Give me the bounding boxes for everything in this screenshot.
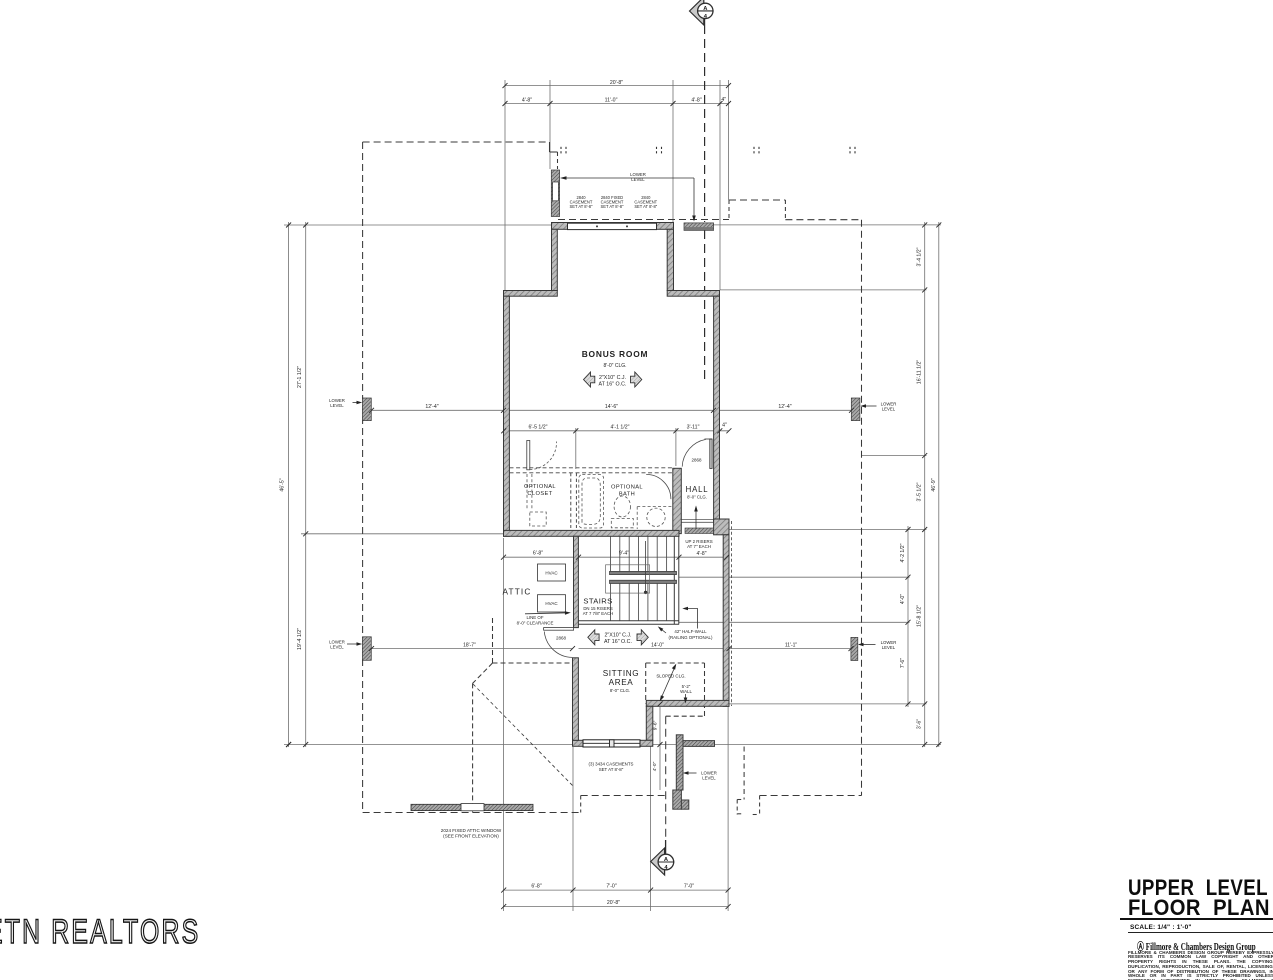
- svg-text:11'-1": 11'-1": [785, 643, 798, 649]
- svg-text:15'-8 1/2": 15'-8 1/2": [917, 605, 923, 627]
- roof right h y219.7: [785, 219, 861, 221]
- svg-text:3'-4 1/2": 3'-4 1/2": [917, 247, 923, 266]
- svg-text:AT 16" O.C.: AT 16" O.C.: [604, 639, 632, 645]
- attic boundary y795.5: [581, 795, 666, 797]
- chimney lower v2: [673, 790, 682, 809]
- top dim row 2: [505, 103, 729, 105]
- dim ext vertical x660 for 9'-6" and 4'-0": [659, 707, 661, 790]
- bath south wall: [504, 530, 680, 536]
- stairs bottom wall line outer: [579, 623, 680, 625]
- svg-text:46'-9": 46'-9": [931, 478, 937, 491]
- svg-text:LEVEL: LEVEL: [631, 177, 645, 182]
- bottom dim row y906.6: [504, 906, 728, 908]
- roof right h y200: [729, 199, 785, 201]
- section line A top: [704, 25, 706, 222]
- bay right wall: [667, 229, 673, 290]
- stair walk line: [645, 541, 647, 593]
- svg-text:12'-4": 12'-4": [425, 404, 438, 410]
- vanity counter dashed: [637, 506, 673, 508]
- leader bottom-center lower level: [685, 772, 697, 774]
- roof outline left vertical: [362, 142, 364, 813]
- leader left-mid marker: [353, 402, 361, 404]
- svg-text:AT 16" O.C.: AT 16" O.C.: [599, 382, 627, 388]
- hall door header stub: [705, 438, 713, 440]
- top bay window: [568, 223, 657, 229]
- stairs bottom wall line inner: [579, 620, 680, 622]
- tub inner dashed: [582, 478, 600, 524]
- svg-text:27'-1 1/2": 27'-1 1/2": [297, 366, 303, 388]
- svg-text:20'-8": 20'-8": [610, 80, 623, 86]
- joist arrow stairs left: [588, 630, 599, 645]
- bottom right wall: [646, 700, 729, 706]
- svg-text:42" HALF-WALL: 42" HALF-WALL: [674, 629, 707, 634]
- svg-text:4'-0": 4'-0": [652, 761, 658, 771]
- sink circle dashed: [647, 508, 665, 526]
- watermark ETN REALTORS: [0, 913, 200, 952]
- svg-text:2868: 2868: [556, 635, 567, 640]
- svg-text:3'-11": 3'-11": [687, 424, 700, 430]
- svg-text:2024 FIXED ATTIC WINDOW: 2024 FIXED ATTIC WINDOW: [441, 828, 502, 833]
- svg-text:12'-4": 12'-4": [778, 404, 791, 410]
- sloped clg rect bottom: [666, 715, 705, 717]
- closet door leaf: [527, 441, 530, 470]
- sloped ceiling double arrow: [661, 666, 676, 700]
- top ext vertical x505: [504, 80, 506, 290]
- stair rail band lower: [610, 580, 677, 583]
- right ext y704: [729, 703, 927, 705]
- upper-left window marker glass: [553, 182, 559, 201]
- hall step hatch band: [685, 528, 714, 534]
- right ext y455.6: [862, 455, 927, 457]
- dim row y648.6 center: [579, 648, 724, 650]
- svg-text:LEVEL: LEVEL: [882, 645, 896, 650]
- arrowhead right low: [357, 642, 363, 645]
- right ext y577.2: [679, 576, 910, 578]
- right ext y529.5: [729, 529, 927, 531]
- arrowhead down at wall marker: [692, 216, 696, 222]
- svg-text:BONUS ROOM: BONUS ROOM: [582, 349, 649, 359]
- svg-text:SET AT 8'-8": SET AT 8'-8": [570, 204, 593, 209]
- hall step riser line 2: [682, 521, 714, 523]
- svg-text:4'-8": 4'-8": [697, 551, 707, 557]
- attic boundary dashed y812.5: [363, 812, 581, 814]
- main right wall upper: [714, 296, 720, 521]
- svg-text:7'-0": 7'-0": [684, 884, 694, 890]
- roof eave above window: [558, 219, 729, 221]
- leader up-2-risers arrow: [695, 508, 697, 529]
- arrowhead left low: [858, 643, 864, 646]
- svg-text:3'-5 1/2": 3'-5 1/2": [917, 482, 923, 501]
- svg-text:ATTIC: ATTIC: [502, 588, 531, 597]
- closet door arc: [530, 442, 557, 470]
- THIN-LINES: [284, 80, 941, 911]
- sitting step-down wall: [646, 706, 653, 740]
- lower level marker left-low: [362, 637, 371, 661]
- bottom ext vertical x503.4: [502, 538, 504, 911]
- svg-text:14'-6": 14'-6": [605, 404, 618, 410]
- top window mullion dot 2: [626, 225, 628, 227]
- svg-text:WALL: WALL: [680, 689, 692, 694]
- long bottom ext y744.5: [284, 744, 941, 746]
- corner post mark 3: [754, 147, 759, 154]
- svg-text:6'-5 1/2": 6'-5 1/2": [529, 424, 548, 430]
- clearance diagonal cut: [473, 663, 493, 683]
- lower level hook v x737: [736, 800, 738, 815]
- lower level marker right-low: [851, 637, 858, 660]
- top ext vertical x720: [719, 80, 721, 290]
- lower level hook foot x737: [737, 813, 743, 815]
- dim row 12'-4" right: [720, 409, 852, 411]
- svg-text:4'-1 1/2": 4'-1 1/2": [611, 424, 630, 430]
- roof outline right vertical: [861, 220, 863, 796]
- ticks stairs row: [501, 555, 729, 560]
- right wall jog block: [714, 519, 729, 535]
- bay left wall: [552, 229, 558, 290]
- section marker A4 bottom triangle: [651, 848, 665, 875]
- dim row 14'-6" center: [510, 409, 714, 411]
- attic fixed window band: [411, 804, 533, 810]
- right tier B x924.7: [924, 222, 926, 747]
- dim row y648.6 left: [372, 648, 573, 650]
- sloped clg rect right: [704, 663, 706, 716]
- closet rod dashed 2: [531, 474, 533, 509]
- FIXTURES: [510, 439, 713, 657]
- toilet bowl dashed: [614, 496, 630, 517]
- SECTION MARKERS: [651, 0, 714, 875]
- roof step v2: [557, 152, 559, 169]
- ticks row y648.6: [369, 646, 854, 651]
- section marker A4 top circle: [698, 3, 713, 18]
- svg-text:16'-11 1/2": 16'-11 1/2": [917, 360, 923, 385]
- sitting south wall: [573, 740, 653, 746]
- svg-text:9'-4": 9'-4": [619, 551, 629, 557]
- svg-text:6'-8": 6'-8": [533, 551, 543, 557]
- section tail dashed x665.7: [665, 716, 667, 840]
- bath door arc: [646, 474, 671, 499]
- arrowhead left: [860, 404, 866, 407]
- section line A in plan: [704, 230, 706, 384]
- section marker A4 bottom divider: [658, 861, 675, 863]
- right ext y224.9: [684, 224, 941, 226]
- bottom ext vertical x728.1: [727, 707, 729, 911]
- optional wall dashed top line: [510, 467, 673, 469]
- svg-text:LEVEL: LEVEL: [882, 407, 896, 412]
- ticks row 12'-4": [369, 408, 854, 413]
- svg-text:9'-6": 9'-6": [653, 720, 659, 730]
- svg-text:LEVEL: LEVEL: [702, 776, 716, 781]
- svg-text:HVAC: HVAC: [545, 571, 558, 576]
- arrowhead bottom-center: [683, 771, 689, 774]
- clearance dashed v x492.5: [492, 618, 494, 663]
- svg-text:7'-0": 7'-0": [606, 884, 616, 890]
- tub outer dashed: [579, 475, 604, 528]
- svg-text:8'-0" CLG.: 8'-0" CLG.: [610, 688, 630, 693]
- svg-text:OPTIONAL: OPTIONAL: [524, 484, 556, 490]
- lower level hook foot: [753, 814, 760, 816]
- svg-text:46'-5": 46'-5": [280, 478, 286, 491]
- dim row 12'-4" left: [372, 409, 504, 411]
- bottom ext vertical x650.6: [650, 708, 652, 911]
- stairs west wall: [574, 536, 579, 627]
- svg-text:19'-4 1/2": 19'-4 1/2": [297, 628, 303, 650]
- optional wall dashed bottom line: [510, 472, 673, 474]
- section line bottom dashed: [665, 840, 667, 854]
- joist arrow bonus left: [584, 372, 595, 387]
- dim row y648.6 right 11'-1": [729, 648, 851, 650]
- corner post mark 4: [850, 147, 855, 154]
- bay top wall: [552, 223, 674, 230]
- stairs halfwall line inner: [673, 536, 675, 624]
- lower level hook v x759.6: [759, 796, 761, 815]
- TICKS: [286, 83, 941, 909]
- main left wall: [504, 296, 510, 536]
- closet shelf dashed box: [530, 512, 546, 526]
- sitting window (3) 3434: [583, 740, 640, 747]
- svg-text:(SEE FRONT ELEVATION): (SEE FRONT ELEVATION): [443, 834, 499, 839]
- leader left-low marker: [347, 643, 361, 645]
- svg-text:AREA: AREA: [609, 678, 634, 687]
- hall door arc: [682, 439, 706, 466]
- ext vertical x675.9: [675, 428, 677, 466]
- DASHED-LINES: [363, 25, 862, 854]
- leader right-mid marker: [862, 405, 877, 407]
- top window mullion dot 1: [596, 225, 598, 227]
- ticks top row2: [503, 101, 732, 106]
- attic door leaf 2868: [544, 628, 574, 631]
- svg-text:(RAILING OPTIONAL): (RAILING OPTIONAL): [669, 635, 713, 640]
- svg-text:LEVEL: LEVEL: [330, 645, 344, 650]
- svg-text:LEVEL: LEVEL: [330, 403, 344, 408]
- roof right step v2: [784, 200, 786, 220]
- left ext y225: [284, 224, 552, 226]
- stair treads: [611, 537, 667, 621]
- chimney lower-level wall v1: [676, 735, 683, 790]
- svg-text:SET AT 8'-8": SET AT 8'-8": [599, 767, 624, 772]
- ticks right chain A: [906, 527, 911, 706]
- attic window center glass: [461, 804, 484, 811]
- hall door leaf 2868: [710, 439, 712, 469]
- attic door arc: [544, 632, 572, 658]
- toilet tank dashed: [611, 519, 633, 528]
- bottom dim row y890: [504, 889, 728, 891]
- lower level hook v x744: [743, 747, 745, 800]
- arrowhead at window marker: [560, 176, 567, 180]
- svg-text:4'-8": 4'-8": [522, 97, 532, 103]
- leader top lower-level h: [563, 177, 695, 179]
- clearance long diagonal: [473, 684, 573, 786]
- lower level outline bottom right h: [760, 795, 862, 797]
- left chain inner: [305, 222, 307, 747]
- right ext y622.3: [679, 621, 910, 623]
- ticks bath row: [501, 428, 731, 433]
- sitting west wall: [573, 658, 579, 741]
- lower level hook step: [737, 799, 744, 801]
- svg-text:11'-0": 11'-0": [605, 97, 618, 103]
- svg-text:14'-0": 14'-0": [651, 643, 664, 649]
- sloped clg rect left: [645, 663, 647, 704]
- hall west wall: [673, 468, 682, 533]
- HVAC box 2: [538, 595, 566, 612]
- svg-text:2"X10" C.J.: 2"X10" C.J.: [604, 632, 631, 638]
- svg-text:8'-0" CLG.: 8'-0" CLG.: [603, 363, 626, 369]
- svg-text:STAIRS: STAIRS: [583, 597, 612, 606]
- section marker A4 top divider: [697, 10, 714, 12]
- svg-text:(3) 3434 CASEMENTS: (3) 3434 CASEMENTS: [589, 762, 634, 767]
- section top line stub: [704, 19, 706, 25]
- svg-text:4": 4": [722, 422, 727, 428]
- section marker A4 bottom circle: [658, 854, 674, 870]
- top ext vertical x550: [549, 80, 551, 169]
- bottom ext vertical x573: [572, 747, 574, 911]
- svg-text:SITTING: SITTING: [603, 669, 640, 678]
- svg-text:CLOSET: CLOSET: [527, 491, 552, 497]
- upper-right wall marker (lower level): [684, 223, 714, 231]
- WALLS: [362, 170, 859, 811]
- tick y744.5 ends: [286, 701, 662, 747]
- svg-text:LINE OF: LINE OF: [526, 615, 543, 620]
- stairs dim row y557.2: [504, 556, 727, 558]
- right tier C x938.8: [938, 222, 940, 747]
- sitting window center rail: [583, 742, 640, 744]
- leader right-low marker: [860, 644, 876, 646]
- arrowhead right: [357, 401, 363, 404]
- ext vertical x575.8: [575, 428, 577, 469]
- attic boundary step v x580.7: [580, 796, 582, 813]
- svg-text:2"X10" C.J.: 2"X10" C.J.: [599, 375, 626, 381]
- leader half-wall 1: [660, 628, 667, 633]
- lower level dashed beside right wall: [730, 521, 732, 706]
- leader 5'-2" wall down arrow: [685, 694, 687, 701]
- svg-text:3'-6": 3'-6": [917, 719, 923, 729]
- svg-text:4'-2 1/2": 4'-2 1/2": [900, 543, 906, 562]
- bath dim row y430.8: [504, 430, 729, 432]
- chimney bar h: [683, 741, 715, 747]
- svg-text:OPTIONAL: OPTIONAL: [611, 485, 643, 491]
- leader top lower-level v: [693, 178, 695, 218]
- right ext y289.9: [720, 289, 927, 291]
- svg-text:18'-7": 18'-7": [463, 643, 476, 649]
- LEADERS: [347, 147, 877, 775]
- svg-text:4'-0": 4'-0": [900, 594, 906, 604]
- svg-text:2868: 2868: [691, 458, 702, 463]
- svg-text:4": 4": [721, 97, 726, 103]
- svg-text:4'-8": 4'-8": [691, 97, 701, 103]
- svg-text:SET AT 8'-8": SET AT 8'-8": [634, 204, 657, 209]
- svg-text:6'-8": 6'-8": [531, 884, 541, 890]
- corner post mark 1: [561, 147, 566, 154]
- ticks top row1: [503, 83, 732, 88]
- svg-text:SET AT 8'-8": SET AT 8'-8": [601, 204, 624, 209]
- HVAC box 1: [538, 564, 566, 581]
- svg-text:20'-8": 20'-8": [607, 900, 620, 906]
- svg-text:7'-6": 7'-6": [900, 658, 906, 668]
- chimney foot: [681, 800, 688, 809]
- clearance dashed v x472.6: [472, 683, 474, 812]
- svg-text:HALL: HALL: [686, 485, 709, 494]
- right tier A x908: [907, 526, 909, 707]
- hall step riser line 1: [682, 519, 714, 521]
- leader half-wall 2: [685, 609, 698, 629]
- ticks bottom rows: [501, 888, 730, 910]
- roof step v: [549, 142, 551, 152]
- stair rail band upper: [610, 571, 677, 574]
- lower level marker left-mid: [362, 398, 371, 421]
- svg-text:BATH: BATH: [619, 492, 635, 498]
- roof outline top: [363, 141, 550, 143]
- clearance dashed y663 attic: [493, 662, 572, 664]
- left ext y533.8: [301, 533, 504, 535]
- title block: [1118, 873, 1273, 875]
- vanity side dashed: [636, 507, 638, 529]
- stair walk dot: [644, 591, 647, 594]
- sitting window mullion block: [610, 740, 615, 747]
- stair landing outline box: [606, 565, 650, 593]
- closet-bath dashed wall line 1: [570, 473, 572, 528]
- svg-text:HVAC: HVAC: [545, 601, 558, 606]
- ticks left chain: [286, 223, 308, 748]
- svg-text:AT 7 7/8" EACH: AT 7 7/8" EACH: [583, 611, 614, 616]
- top ext vertical x728.5: [728, 80, 730, 200]
- sloped clg rect top: [646, 662, 705, 664]
- joist arrow stairs right: [637, 630, 648, 645]
- left chain outer 46'-5": [288, 222, 290, 747]
- svg-text:8'-0" CLG.: 8'-0" CLG.: [687, 495, 707, 500]
- corner post mark 2: [657, 147, 662, 154]
- svg-text:SLOPED CLG.: SLOPED CLG.: [656, 674, 685, 679]
- ticks right chain B C: [922, 222, 941, 747]
- stairs halfwall line outer: [678, 536, 680, 624]
- roof right step v: [728, 200, 730, 220]
- section marker A4 top triangle: [690, 0, 704, 25]
- top ext vertical x673: [672, 80, 674, 222]
- joist arrow bonus right: [631, 372, 642, 387]
- lower level marker right-mid: [851, 398, 860, 421]
- right step wall: [667, 291, 719, 297]
- closet-bath dashed wall line 2: [575, 473, 577, 528]
- top dim row 20'-8": [505, 85, 729, 87]
- leader line-of-clearance: [525, 613, 568, 614]
- svg-text:8'-0" CLEARANCE: 8'-0" CLEARANCE: [517, 621, 554, 626]
- upper-left window marker (lower level): [551, 170, 559, 217]
- left step wall: [504, 291, 558, 297]
- lower right wall: [723, 535, 729, 707]
- closet rod dashed 1: [526, 474, 528, 509]
- roof step h: [550, 151, 558, 153]
- svg-text:AT 7" EACH: AT 7" EACH: [687, 544, 711, 549]
